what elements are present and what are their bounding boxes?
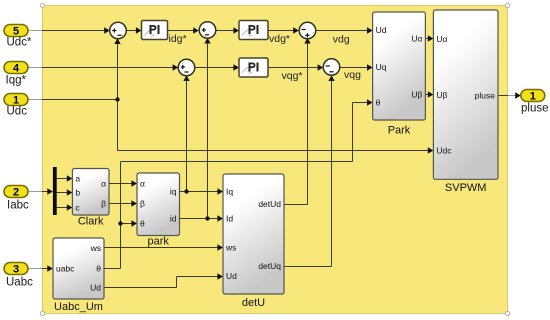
svg-text:Clark: Clark <box>78 216 104 228</box>
wire PI1 to sum2, label idg* <box>168 27 199 45</box>
svg-text:β: β <box>140 199 145 209</box>
svg-text:Ud: Ud <box>226 271 237 281</box>
output port 1, label pluse <box>521 90 549 115</box>
PI controller PI3 <box>239 58 268 77</box>
mux bar for Iabc <box>53 167 57 215</box>
wire detUd feedback up to sum3 <box>284 38 311 205</box>
input port 3, label Uabc <box>4 263 33 289</box>
svg-text:ws: ws <box>90 243 101 253</box>
wire PI2 to sum3, label vdg* <box>268 27 299 45</box>
corner handle top-right <box>505 3 509 7</box>
wire Park Ubeta to SVPWM <box>425 91 433 97</box>
wire PI3 to sum5, label vqg* <box>268 64 323 82</box>
wire park iq to detU <box>180 188 224 194</box>
wire Clark beta to park <box>109 200 137 206</box>
svg-text:pluse: pluse <box>475 91 496 101</box>
wire theta across and up to Park <box>121 99 373 161</box>
corner handle bottom-right <box>505 311 509 315</box>
wire park id to detU <box>180 215 224 221</box>
wire Uabc_Um Ud to detU <box>104 273 223 287</box>
svg-text:Udc*: Udc* <box>7 37 32 49</box>
svg-text:Ud: Ud <box>376 25 387 35</box>
svg-text:park: park <box>147 236 169 248</box>
svg-text:SVPWM: SVPWM <box>445 182 487 194</box>
svg-text:Ud: Ud <box>90 283 101 293</box>
junction node theta <box>118 221 122 225</box>
svg-text:vdg: vdg <box>333 34 350 46</box>
corner handle bottom-left <box>40 311 44 315</box>
svg-text:detU: detU <box>242 297 265 309</box>
summing junction sum3 (detUd - vdg*) <box>299 22 316 39</box>
svg-text:detUd: detUd <box>258 199 281 209</box>
svg-text:Iqg*: Iqg* <box>6 75 27 87</box>
wire mux to Clark b <box>57 189 73 195</box>
wire port4 to sum4 <box>28 64 178 70</box>
junction node Udc <box>115 97 119 101</box>
svg-text:4: 4 <box>13 63 20 75</box>
wire SVPWM pluse to output port <box>498 92 521 98</box>
svg-text:c: c <box>75 203 80 213</box>
svg-text:Uq: Uq <box>376 62 387 72</box>
wire sum4 to PI3 <box>195 64 239 70</box>
wire detUq feedback up to sum5 <box>284 75 335 266</box>
svg-text:Udc: Udc <box>7 106 28 118</box>
svg-text:θ: θ <box>96 264 101 274</box>
block SVPWM <box>433 10 498 179</box>
PI controller PI2 <box>239 21 268 40</box>
svg-text:ws: ws <box>225 243 236 253</box>
wire mux to Clark a <box>57 175 73 181</box>
svg-text:Id: Id <box>226 214 233 224</box>
svg-text:Uabc: Uabc <box>6 277 33 289</box>
input port 5, label Udc* <box>4 25 32 49</box>
summing junction sum1 (Udc* - Udc) <box>110 22 127 39</box>
svg-text:b: b <box>75 188 80 198</box>
wire Udc down to row y150 <box>117 100 119 151</box>
block Park (inverse transform) <box>373 12 426 120</box>
svg-text:Uα: Uα <box>436 34 447 44</box>
svg-text:vdg*: vdg* <box>269 33 290 45</box>
svg-text:vqg: vqg <box>344 69 361 81</box>
input port 4, label Iqg* <box>4 62 28 87</box>
wire sum5 to Park input Uq, label vqg <box>340 64 373 81</box>
svg-text:id: id <box>170 214 177 224</box>
svg-text:Udc: Udc <box>436 146 452 156</box>
svg-text:2: 2 <box>13 187 19 199</box>
block park (dq transform) <box>137 173 180 236</box>
wire Park Ualpha to SVPWM <box>425 35 433 41</box>
summing junction sum4 (Iqg* - iq) <box>178 59 195 76</box>
svg-text:Uβ: Uβ <box>436 90 447 100</box>
wire id feedback up to sum2 <box>204 38 210 219</box>
wire theta branch to park <box>121 220 138 226</box>
input port 1, label Udc <box>4 94 28 118</box>
block Uabc_Um <box>53 238 104 299</box>
wire Uabc_Um theta right then up <box>104 162 121 269</box>
svg-text:Uabc_Um: Uabc_Um <box>54 301 103 313</box>
svg-text:3: 3 <box>13 264 19 276</box>
wire port5 to sum1 <box>28 27 110 33</box>
svg-text:Park: Park <box>388 125 411 137</box>
PI controller PI1 <box>142 21 168 40</box>
block detU <box>223 174 284 294</box>
wire iq feedback up to sum4 <box>183 75 189 191</box>
svg-text:1: 1 <box>530 91 536 103</box>
corner handle top-left <box>40 3 44 7</box>
svg-text:vqg*: vqg* <box>282 70 303 82</box>
svg-text:α: α <box>101 179 106 189</box>
svg-text:β: β <box>101 199 106 209</box>
wire port2 to mux <box>28 188 53 194</box>
summing junction sum2 (idg* - id) <box>199 22 216 39</box>
svg-text:Uα: Uα <box>411 34 422 44</box>
wire port3 to Uabc_Um <box>28 265 53 271</box>
wire sum2 to PI2 <box>215 27 239 33</box>
svg-text:uabc: uabc <box>56 263 75 273</box>
wire Udc across to SVPWM <box>118 147 434 153</box>
wire port1 Udc to junction <box>28 99 118 101</box>
svg-text:detUq: detUq <box>258 261 281 271</box>
wire sum1 to PI1 <box>126 27 141 33</box>
svg-text:iq: iq <box>170 187 177 197</box>
svg-text:a: a <box>75 174 80 184</box>
svg-text:θ: θ <box>376 98 381 108</box>
svg-text:pluse: pluse <box>521 103 549 115</box>
wire sum3 to Park input Ud, label vdg <box>316 27 373 45</box>
svg-text:Iq: Iq <box>226 187 233 197</box>
summing junction sum5 (-vqg* - detUq) <box>323 59 340 76</box>
wire mux to Clark c <box>57 204 73 210</box>
wire Clark alpha to park <box>109 180 137 186</box>
wire Udc feedback up to sum1 <box>114 38 120 99</box>
input port 2, label Iabc <box>4 186 29 212</box>
junction node iq <box>184 189 188 193</box>
svg-text:θ: θ <box>140 219 145 229</box>
svg-text:α: α <box>140 179 145 189</box>
svg-text:Iabc: Iabc <box>7 200 29 212</box>
wire Uabc_Um ws to detU <box>104 244 223 250</box>
block Clark (abc to alpha-beta) <box>72 169 109 216</box>
svg-text:Uβ: Uβ <box>411 90 422 100</box>
svg-text:idg*: idg* <box>169 33 187 45</box>
junction node id <box>205 216 209 220</box>
